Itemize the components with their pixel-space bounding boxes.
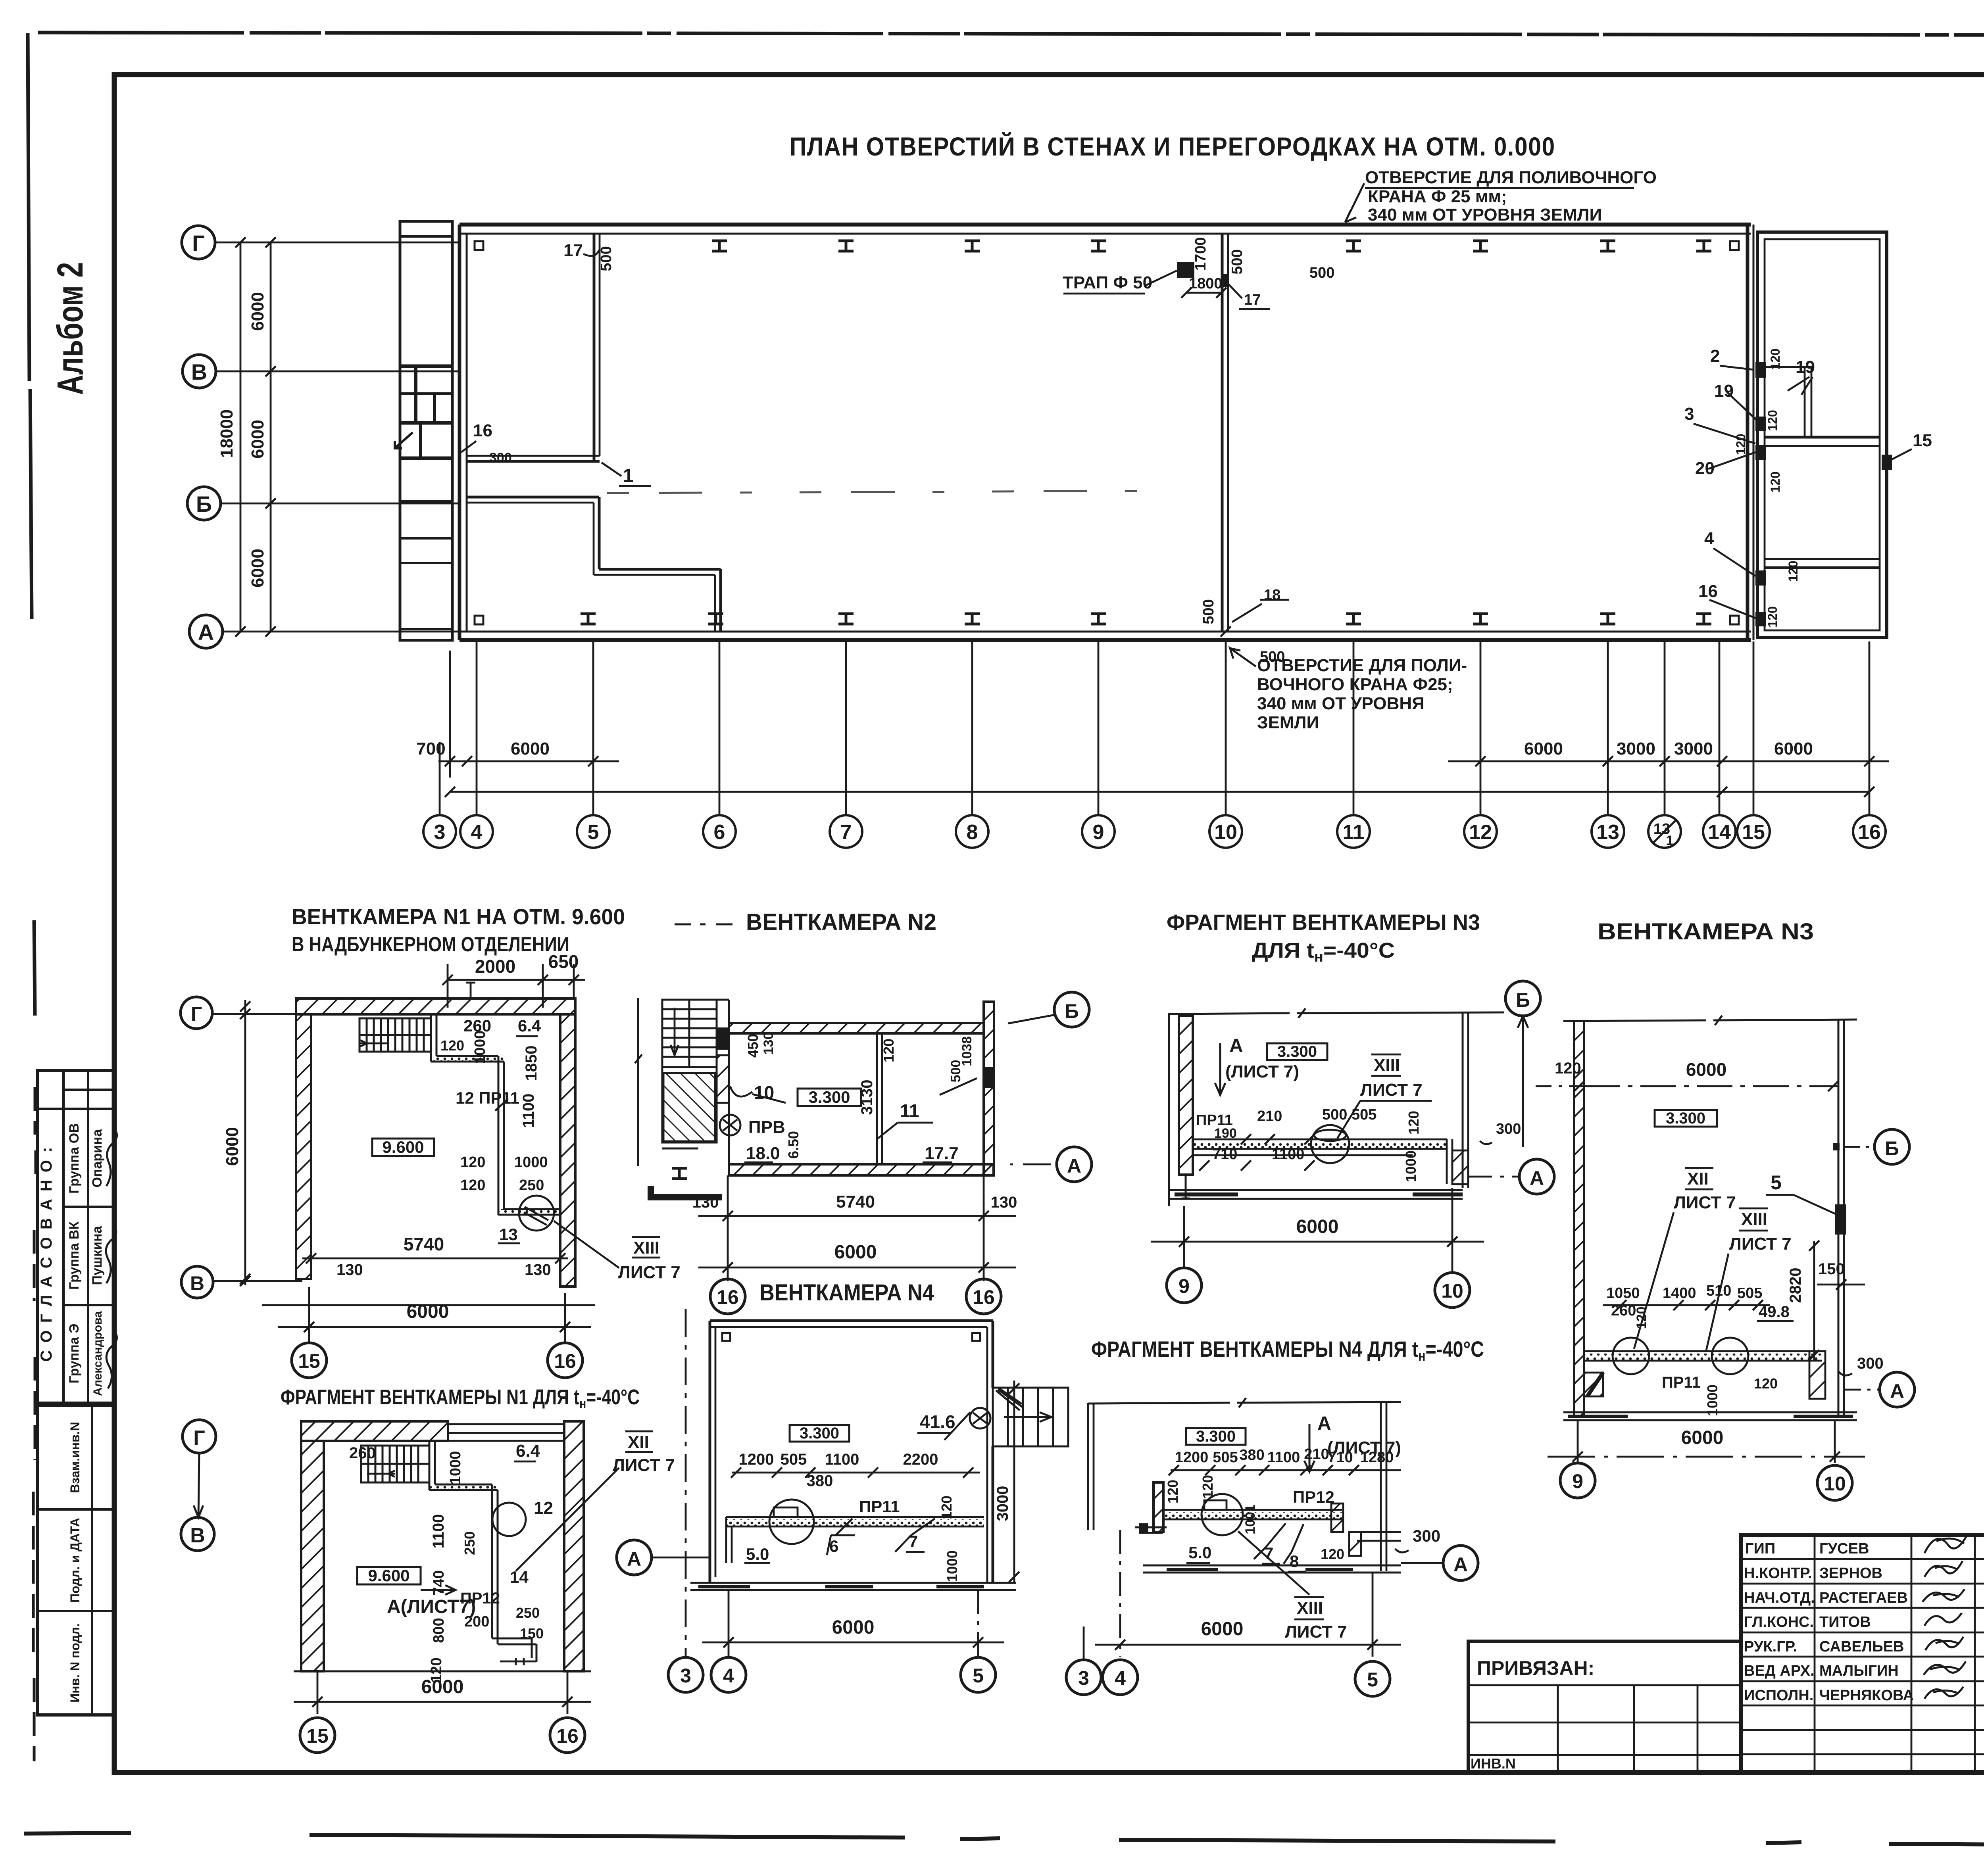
left axis line — [685, 1309, 687, 1657]
svg-text:13: 13 — [1596, 821, 1619, 844]
VK1 axis Г — [181, 997, 212, 1029]
bottom — [294, 1671, 591, 1672]
svg-text:Альбом 2: Альбом 2 — [50, 262, 90, 395]
svg-text:ВЕНТКАМЕРА N2: ВЕНТКАМЕРА N2 — [746, 909, 936, 935]
svg-text:510: 510 — [1706, 1283, 1731, 1299]
bottom axis dims — [728, 1590, 730, 1657]
floor channel — [1193, 1142, 1447, 1148]
svg-text:12 ПР11: 12 ПР11 — [456, 1089, 519, 1107]
3.300 box — [1655, 1110, 1717, 1127]
svg-text:710: 710 — [1212, 1146, 1237, 1163]
svg-text:В: В — [190, 1272, 204, 1294]
svg-text:500: 500 — [1229, 249, 1246, 274]
svg-text:ВЕНТКАМЕРА N1 НА ОТМ. 9.600: ВЕНТКАМЕРА N1 НА ОТМ. 9.600 — [292, 904, 625, 929]
svg-text:Группа ОВ: Группа ОВ — [67, 1123, 82, 1194]
svg-text:3.300: 3.300 — [808, 1088, 850, 1106]
svg-text:ТИТОВ: ТИТОВ — [1819, 1614, 1871, 1630]
privyazan box — [1468, 1641, 1741, 1772]
svg-text:2: 2 — [1710, 346, 1720, 366]
svg-text:1001: 1001 — [1243, 1504, 1258, 1534]
svg-text:700: 700 — [416, 739, 445, 758]
bottom annotation: watering tap — [1257, 656, 1467, 732]
svg-text:15: 15 — [306, 1725, 329, 1747]
label 1 lower room — [623, 465, 634, 486]
А (лист7) + arrow — [387, 1596, 476, 1617]
svg-text:ПРИВЯЗАН:: ПРИВЯЗАН: — [1477, 1657, 1594, 1679]
labels — [349, 1441, 544, 1683]
svg-text:9: 9 — [1178, 1275, 1190, 1297]
3.300 box — [1186, 1428, 1246, 1445]
svg-text:450: 450 — [745, 1034, 761, 1058]
walls — [710, 1321, 993, 1583]
main title block frame — [1741, 1535, 1984, 1772]
labels — [1188, 1488, 1440, 1571]
detail circle — [1311, 1125, 1349, 1163]
svg-text:САВЕЛЬЕВ: САВЕЛЬЕВ — [1819, 1638, 1904, 1655]
left hatched wall — [1179, 1016, 1193, 1175]
svg-text:18000: 18000 — [217, 409, 236, 458]
svg-text:ФРАГМЕНТ ВЕНТКАМЕРЫ N4 ДЛЯ tн=: ФРАГМЕНТ ВЕНТКАМЕРЫ N4 ДЛЯ tн=-40°С — [1091, 1336, 1484, 1364]
right end labels — [1684, 346, 1932, 601]
svg-text:505: 505 — [1213, 1449, 1238, 1466]
svg-text:6000: 6000 — [1681, 1427, 1724, 1448]
svg-text:Б: Б — [196, 492, 212, 517]
svg-text:6000: 6000 — [1686, 1059, 1726, 1080]
svg-text:5.0: 5.0 — [1188, 1543, 1211, 1562]
svg-text:ИСПОЛН.: ИСПОЛН. — [1744, 1687, 1813, 1704]
svg-text:ПР12: ПР12 — [1293, 1488, 1334, 1506]
svg-text:А(ЛИСТ7): А(ЛИСТ7) — [387, 1596, 476, 1617]
А axis circle — [1880, 1372, 1915, 1407]
svg-text:120: 120 — [1786, 561, 1800, 582]
svg-text:17: 17 — [1244, 292, 1261, 308]
svg-text:1200: 1200 — [739, 1451, 774, 1468]
svg-text:1850: 1850 — [523, 1046, 540, 1081]
svg-text:А: А — [1229, 1035, 1243, 1056]
labels — [746, 1486, 1011, 1582]
svg-text:Инв. N подл.: Инв. N подл. — [68, 1623, 82, 1703]
svg-text:13: 13 — [499, 1225, 518, 1244]
hall left wall — [459, 225, 467, 640]
svg-text:6: 6 — [714, 821, 725, 844]
svg-text:3: 3 — [680, 1665, 691, 1687]
svg-text:5: 5 — [1367, 1669, 1378, 1691]
svg-text:5: 5 — [1771, 1171, 1782, 1194]
svg-text:XII: XII — [628, 1432, 649, 1452]
N circle — [720, 1115, 740, 1135]
svg-text:Взам.инв.N: Взам.инв.N — [68, 1422, 82, 1493]
svg-text:НАЧ.ОТД.: НАЧ.ОТД. — [1744, 1590, 1815, 1606]
svg-text:6000: 6000 — [248, 292, 267, 331]
label 16 left wall — [473, 421, 492, 440]
svg-text:А: А — [1317, 1413, 1331, 1434]
svg-text:1100: 1100 — [520, 1094, 537, 1128]
stray marks left of blocks — [33, 1087, 36, 1761]
svg-text:18: 18 — [1264, 587, 1280, 603]
leader to XIII — [554, 1221, 619, 1268]
svg-text:12: 12 — [1469, 821, 1492, 844]
17 label upper-left room — [563, 241, 583, 260]
svg-text:14: 14 — [510, 1568, 529, 1586]
svg-text:1100: 1100 — [430, 1514, 447, 1549]
svg-text:1000: 1000 — [472, 1031, 488, 1064]
room walls — [729, 1023, 984, 1033]
svg-text:6000: 6000 — [1296, 1216, 1339, 1237]
paper left edge — [28, 33, 35, 1016]
bottom plinth — [690, 1583, 1016, 1590]
stairs — [361, 1446, 429, 1482]
staff rows — [1741, 1535, 1984, 1772]
svg-text:4: 4 — [1704, 529, 1714, 548]
svg-text:120: 120 — [1765, 410, 1780, 431]
svg-text:16: 16 — [717, 1286, 739, 1308]
svg-text:120: 120 — [1405, 1111, 1422, 1135]
svg-text:Н.КОНТР.: Н.КОНТР. — [1744, 1565, 1812, 1582]
svg-text:3.300: 3.300 — [1277, 1043, 1317, 1060]
XII / XIII leaders — [1674, 1169, 1792, 1254]
svg-text:10: 10 — [1214, 821, 1237, 844]
bottom plinth — [1143, 1565, 1401, 1573]
3.300 box — [790, 1425, 849, 1442]
svg-text:11: 11 — [900, 1100, 919, 1121]
svg-text:РУК.ГР.: РУК.ГР. — [1744, 1638, 1797, 1655]
svg-text:ДЛЯ tн=-40°С: ДЛЯ tн=-40°С — [1252, 939, 1395, 965]
А axis — [617, 1540, 652, 1575]
bottom dims — [727, 1175, 729, 1281]
svg-text:6.50: 6.50 — [785, 1131, 802, 1159]
corner squares — [722, 1333, 730, 1341]
svg-text:380: 380 — [1239, 1447, 1264, 1463]
top wall — [459, 225, 1751, 234]
svg-text:380: 380 — [807, 1472, 833, 1490]
svg-text:Г: Г — [193, 1427, 205, 1450]
svg-text:1200: 1200 — [1175, 1449, 1209, 1466]
svg-text:ЛИСТ 7: ЛИСТ 7 — [618, 1263, 681, 1282]
svg-text:В: В — [190, 1524, 205, 1547]
svg-text:250: 250 — [516, 1605, 540, 1621]
bottom inner dim 5740 — [302, 1258, 568, 1260]
right structure — [1357, 1402, 1401, 1571]
trap label — [1063, 273, 1152, 292]
svg-text:300: 300 — [1857, 1355, 1884, 1372]
upper-left room — [467, 234, 600, 461]
svg-text:ЗЕРНОВ: ЗЕРНОВ — [1819, 1565, 1882, 1582]
svg-text:4: 4 — [1115, 1667, 1126, 1689]
svg-text:16: 16 — [556, 1725, 579, 1747]
svg-text:Группа Э: Группа Э — [67, 1324, 82, 1384]
bottom axis dim — [1577, 1420, 1579, 1463]
svg-text:РАСТЕГАЕВ: РАСТЕГАЕВ — [1819, 1590, 1908, 1606]
XIII leader — [1360, 1056, 1423, 1100]
9.600 box — [357, 1567, 421, 1584]
svg-text:1000: 1000 — [944, 1550, 960, 1582]
svg-text:ЛИСТ 7: ЛИСТ 7 — [1360, 1080, 1423, 1100]
svg-text:5740: 5740 — [404, 1234, 444, 1254]
left hatched wall — [1153, 1482, 1163, 1532]
I-beam columns bottom row — [838, 614, 854, 624]
svg-text:17.7: 17.7 — [925, 1144, 959, 1163]
svg-text:5.0: 5.0 — [746, 1545, 769, 1563]
svg-text:3.300: 3.300 — [1666, 1110, 1705, 1127]
svg-text:16: 16 — [973, 1286, 995, 1308]
svg-text:ПЛАН ОТВЕРСТИЙ В СТЕНАХ И: ПЛАН ОТВЕРСТИЙ В СТЕНАХ И ПЕРЕГОРОДКАХ Н… — [790, 131, 1555, 161]
svg-text:А: А — [1890, 1380, 1904, 1402]
svg-text:Пушкина: Пушкина — [90, 1225, 105, 1285]
svg-text:6000: 6000 — [223, 1127, 242, 1166]
svg-text:Группа ВК: Группа ВК — [67, 1221, 82, 1290]
floor channel — [1584, 1354, 1822, 1360]
svg-text:14: 14 — [1708, 821, 1731, 844]
dim row — [1175, 1446, 1394, 1466]
top line with break — [1563, 1016, 1857, 1025]
svg-text:3.300: 3.300 — [800, 1425, 839, 1442]
svg-text:120: 120 — [1165, 1480, 1181, 1503]
stairs — [360, 1018, 431, 1052]
svg-text:740: 740 — [431, 1570, 447, 1595]
bottom axis dim 6000 — [262, 1304, 595, 1306]
svg-text:ГЛ.КОНС.: ГЛ.КОНС. — [1744, 1614, 1814, 1630]
svg-text:С О Г Л А С О В А Н О :: С О Г Л А С О В А Н О : — [38, 1146, 55, 1362]
svg-text:5740: 5740 — [836, 1192, 875, 1212]
inner duct — [429, 1441, 536, 1665]
N circle — [970, 1408, 990, 1429]
svg-text:А: А — [627, 1548, 641, 1570]
svg-text:ГИП: ГИП — [1745, 1540, 1775, 1557]
svg-text:В: В — [191, 359, 207, 384]
svg-text:250: 250 — [461, 1531, 478, 1555]
hatched walls — [296, 998, 575, 1014]
svg-text:1050: 1050 — [1606, 1285, 1640, 1302]
right wall — [1838, 1020, 1840, 1416]
svg-text:1100: 1100 — [1272, 1146, 1304, 1163]
svg-text:16: 16 — [1698, 582, 1718, 601]
svg-text:3: 3 — [1078, 1667, 1089, 1689]
svg-text:800: 800 — [431, 1618, 447, 1643]
stairs annex right — [993, 1388, 1068, 1446]
svg-text:5: 5 — [588, 821, 599, 844]
dim row — [739, 1451, 938, 1490]
svg-text:3000: 3000 — [1674, 739, 1713, 758]
svg-text:ВОЧНОГО КРАНА Ф25;: ВОЧНОГО КРАНА Ф25; — [1257, 675, 1453, 694]
svg-text:130: 130 — [692, 1194, 719, 1211]
svg-text:16: 16 — [473, 421, 492, 440]
svg-text:ЛИСТ 7: ЛИСТ 7 — [1285, 1622, 1347, 1642]
svg-text:500: 500 — [1309, 265, 1334, 281]
svg-text:ПРВ: ПРВ — [748, 1118, 785, 1137]
svg-text:130: 130 — [761, 1032, 776, 1055]
vertical dim chain rows — [240, 242, 271, 632]
svg-text:6000: 6000 — [1524, 739, 1563, 758]
corner squares — [475, 241, 483, 250]
svg-text:19: 19 — [1714, 381, 1734, 401]
svg-text:А: А — [1530, 1167, 1544, 1189]
svg-text:710: 710 — [1328, 1449, 1353, 1466]
svg-text:4: 4 — [471, 821, 483, 844]
svg-text:6000: 6000 — [1201, 1619, 1244, 1640]
VK1 axis В — [181, 1266, 213, 1298]
svg-text:130: 130 — [525, 1261, 551, 1279]
svg-text:В НАДБУНКЕРНОМ ОТДЕЛЕНИИ: В НАДБУНКЕРНОМ ОТДЕЛЕНИИ — [292, 933, 569, 956]
bottom axis dim — [1183, 1206, 1185, 1268]
svg-text:9.600: 9.600 — [368, 1566, 409, 1585]
svg-text:А: А — [1453, 1553, 1468, 1576]
svg-text:2000: 2000 — [475, 956, 515, 977]
svg-text:130: 130 — [991, 1194, 1017, 1211]
opening right wall — [984, 1067, 994, 1088]
dim chain (segment values) — [438, 760, 1889, 762]
row axis leaders — [214, 242, 459, 244]
left stair annex — [395, 221, 452, 640]
svg-text:6.4: 6.4 — [518, 1016, 541, 1035]
column leader lines down to circles — [440, 641, 1869, 815]
title — [1167, 910, 1480, 965]
svg-text:41.6: 41.6 — [920, 1411, 955, 1432]
svg-text:ОТВЕРСТИЕ ДЛЯ ПОЛИ-: ОТВЕРСТИЕ ДЛЯ ПОЛИ- — [1257, 656, 1467, 675]
detail circle 13 — [519, 1196, 554, 1231]
column axis circles — [423, 815, 1886, 848]
labels below channel — [1662, 1355, 1884, 1416]
svg-text:Г: Г — [191, 1003, 202, 1025]
svg-text:3.300: 3.300 — [1196, 1428, 1236, 1445]
left thin wall — [1087, 1403, 1089, 1530]
svg-text:650: 650 — [548, 951, 579, 972]
svg-text:190: 190 — [1214, 1126, 1237, 1141]
overall dim line — [450, 791, 1869, 793]
svg-text:XIII: XIII — [1374, 1056, 1400, 1075]
svg-text:ЗЕМЛИ: ЗЕМЛИ — [1257, 713, 1319, 732]
svg-text:120: 120 — [1321, 1546, 1344, 1562]
svg-text:12: 12 — [534, 1498, 553, 1518]
svg-text:7: 7 — [909, 1532, 918, 1551]
svg-text:120: 120 — [1634, 1307, 1649, 1329]
svg-text:МАЛЫГИН: МАЛЫГИН — [1819, 1663, 1899, 1679]
I-beam + black corner bottom-left — [672, 1168, 687, 1179]
dims above channel — [1606, 1283, 1790, 1329]
XIII leader — [1285, 1598, 1347, 1642]
svg-text:XIII: XIII — [1297, 1598, 1323, 1618]
axis circles — [1505, 981, 1540, 1016]
svg-text:300: 300 — [1413, 1527, 1440, 1545]
partition — [876, 1033, 878, 1164]
svg-text:6000: 6000 — [248, 420, 267, 459]
svg-text:(ЛИСТ 7): (ЛИСТ 7) — [1225, 1062, 1299, 1081]
svg-text:130: 130 — [336, 1261, 363, 1279]
svg-text:16: 16 — [554, 1350, 576, 1372]
svg-text:120: 120 — [938, 1496, 955, 1519]
9.600 mark box — [372, 1139, 434, 1156]
svg-text:6000: 6000 — [832, 1617, 875, 1638]
svg-text:15: 15 — [298, 1350, 320, 1372]
svg-text:10: 10 — [1441, 1280, 1463, 1302]
signatures (squiggles) — [106, 1127, 117, 1186]
bottom axis dims — [1119, 1530, 1121, 1657]
6000 dim top — [1584, 1085, 1838, 1087]
svg-text:120: 120 — [440, 1037, 464, 1054]
svg-text:ПР11: ПР11 — [1662, 1374, 1701, 1391]
svg-text:500 505: 500 505 — [1322, 1106, 1376, 1123]
signatures — [1922, 1533, 1968, 1699]
channel — [726, 1519, 984, 1526]
3.300 box — [798, 1089, 861, 1106]
svg-text:300: 300 — [489, 450, 512, 465]
bottom plinth — [1563, 1412, 1857, 1420]
small 120 dims right end — [1734, 348, 1800, 627]
svg-text:ТРАП Ф 50: ТРАП Ф 50 — [1063, 273, 1152, 292]
svg-text:505: 505 — [1737, 1285, 1762, 1302]
svg-text:8: 8 — [1290, 1552, 1299, 1571]
left hatched wall — [1574, 1021, 1584, 1416]
row axis circles — [182, 226, 223, 648]
svg-text:1280: 1280 — [1360, 1449, 1394, 1466]
svg-text:210: 210 — [1304, 1446, 1329, 1463]
svg-text:6000: 6000 — [511, 739, 550, 758]
svg-text:ФРАГМЕНТ ВЕНТКАМЕРЫ N1 ДЛЯ tн=: ФРАГМЕНТ ВЕНТКАМЕРЫ N1 ДЛЯ tн=-40°С — [281, 1385, 640, 1411]
svg-text:6000: 6000 — [1774, 739, 1813, 758]
svg-text:XIII: XIII — [633, 1238, 659, 1258]
svg-text:Б: Б — [1516, 989, 1530, 1011]
svg-text:1000: 1000 — [1403, 1150, 1419, 1182]
svg-text:15: 15 — [1913, 431, 1932, 450]
inner partial room lines right annex — [1804, 367, 1806, 437]
svg-text:5: 5 — [973, 1665, 984, 1687]
svg-text:9: 9 — [1093, 821, 1104, 844]
svg-text:150: 150 — [1818, 1260, 1845, 1278]
svg-text:ЛИСТ 7: ЛИСТ 7 — [613, 1455, 675, 1475]
svg-text:Александрова: Александрова — [91, 1311, 104, 1396]
vertical dim left — [637, 998, 639, 1166]
inventory block (lower) — [38, 1406, 114, 1715]
svg-text:16: 16 — [1858, 821, 1881, 844]
axis Г -> В arrow — [183, 1420, 216, 1453]
svg-text:Г: Г — [192, 230, 205, 255]
Б axis circle — [1874, 1129, 1909, 1164]
approval table (upper block) — [38, 1071, 114, 1403]
svg-text:ПР11: ПР11 — [859, 1497, 900, 1516]
dims near axis 10 top — [1189, 237, 1334, 308]
channel — [1163, 1512, 1342, 1519]
svg-text:7: 7 — [840, 821, 852, 844]
A arrow + labels — [1225, 1035, 1299, 1081]
svg-text:500: 500 — [598, 246, 615, 271]
svg-text:ИНВ.N: ИНВ.N — [1471, 1755, 1516, 1772]
svg-text:505: 505 — [781, 1451, 807, 1468]
svg-text:120: 120 — [460, 1154, 485, 1171]
dims — [1196, 1106, 1521, 1182]
3.300 box — [1267, 1043, 1327, 1060]
svg-text:6000: 6000 — [834, 1242, 877, 1263]
svg-text:1400: 1400 — [1663, 1285, 1696, 1302]
svg-text:260: 260 — [349, 1444, 376, 1462]
top line with break — [1088, 1398, 1401, 1407]
title — [292, 904, 625, 956]
axes — [1054, 992, 1089, 1027]
top annotation: watering tap opening — [1365, 168, 1657, 225]
svg-text:250: 250 — [519, 1177, 544, 1194]
svg-text:6.4: 6.4 — [516, 1441, 540, 1461]
svg-text:ВЕНТКАМЕРА N4: ВЕНТКАМЕРА N4 — [759, 1280, 934, 1306]
svg-text:КРАНА Ф 25 мм;: КРАНА Ф 25 мм; — [1368, 187, 1507, 206]
svg-text:2820: 2820 — [1787, 1268, 1804, 1303]
svg-text:Подл. и ДАТА: Подл. и ДАТА — [68, 1518, 82, 1603]
right wall thin — [1462, 1013, 1464, 1188]
top line with break — [1169, 1008, 1504, 1018]
svg-text:120: 120 — [1754, 1375, 1778, 1392]
svg-text:3000: 3000 — [1617, 739, 1655, 758]
svg-text:6000: 6000 — [407, 1301, 449, 1322]
inner dims & labels — [440, 1016, 548, 1244]
svg-text:Б: Б — [1885, 1137, 1899, 1160]
hall right wall — [1748, 225, 1753, 640]
